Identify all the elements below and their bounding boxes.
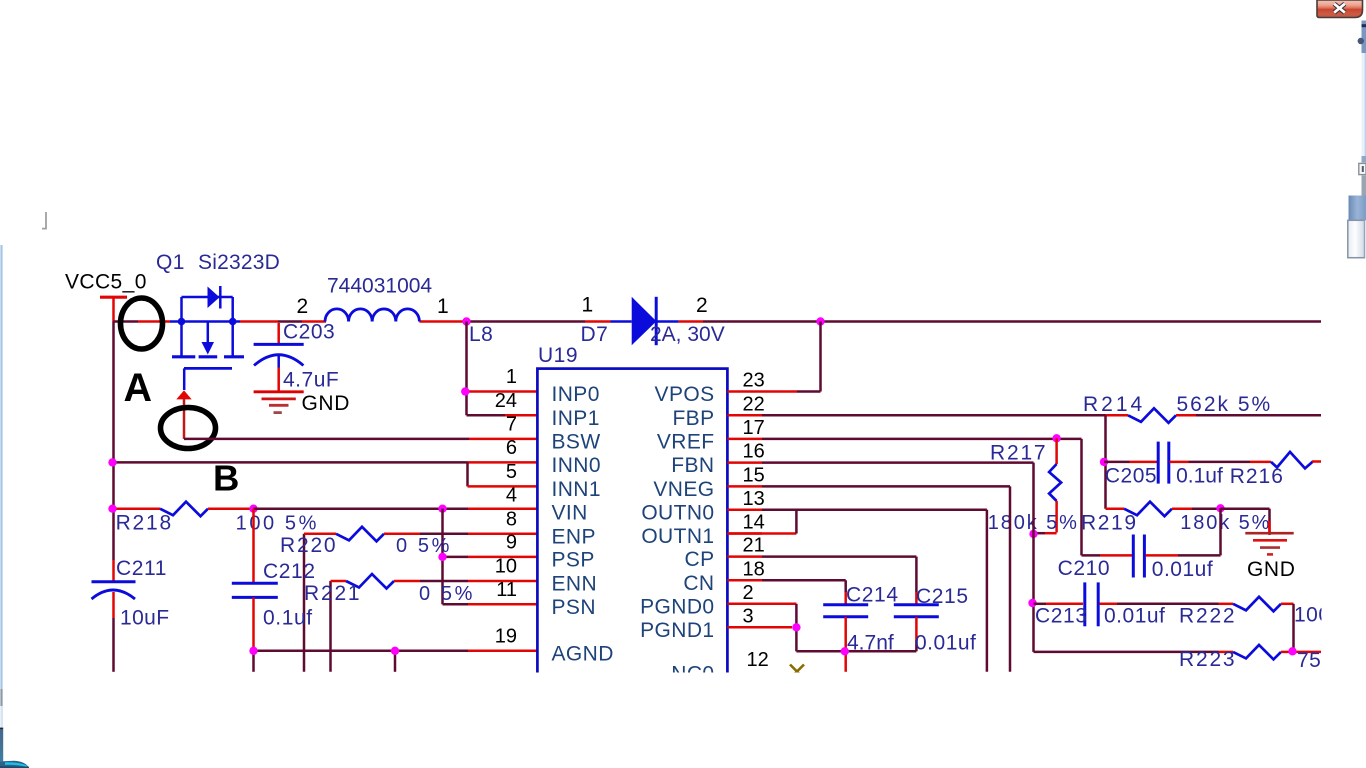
svg-text:VPOS: VPOS xyxy=(655,383,715,406)
capacitor C205 xyxy=(1104,461,1130,464)
svg-text:VCC5_0: VCC5_0 xyxy=(65,271,147,294)
svg-text:13: 13 xyxy=(743,488,765,510)
junction R222-R223 xyxy=(1288,647,1296,655)
svg-text:BSW: BSW xyxy=(552,431,601,454)
ground GND right xyxy=(1268,521,1271,535)
svg-text:GND: GND xyxy=(302,392,350,415)
capacitor C203 xyxy=(277,323,280,343)
annotation ellipse B xyxy=(161,408,216,449)
right edge window strip xyxy=(1362,21,1366,54)
svg-text:19: 19 xyxy=(495,626,517,648)
svg-text:0 5%: 0 5% xyxy=(396,535,452,557)
resistor R222 xyxy=(1219,603,1234,606)
svg-text:12: 12 xyxy=(747,649,769,671)
svg-text:0.01uf: 0.01uf xyxy=(915,632,976,655)
svg-text:100 5%: 100 5% xyxy=(236,513,319,535)
svg-text:CN: CN xyxy=(683,572,714,595)
svg-text:1: 1 xyxy=(582,294,594,317)
svg-text:PGND0: PGND0 xyxy=(640,595,714,618)
resistor R217 xyxy=(1055,438,1058,464)
svg-text:0.01uf: 0.01uf xyxy=(1104,605,1165,628)
svg-text:C211: C211 xyxy=(116,557,167,580)
junction R217 bottom xyxy=(1029,530,1037,538)
svg-text:C203: C203 xyxy=(283,321,335,344)
svg-text:744031004: 744031004 xyxy=(327,275,432,298)
gate arrow of Q1 xyxy=(176,390,191,399)
capacitor C210 xyxy=(1082,554,1101,557)
diode D7 xyxy=(632,297,657,345)
wire VREF xyxy=(762,438,1082,441)
svg-text:562k 5%: 562k 5% xyxy=(1177,393,1273,416)
svg-text:FBP: FBP xyxy=(672,407,714,430)
svg-text:ENP: ENP xyxy=(552,525,596,548)
svg-text:6: 6 xyxy=(506,437,517,459)
annotation ellipse A xyxy=(121,298,163,349)
wire AGND xyxy=(254,650,396,653)
svg-text:R217: R217 xyxy=(990,442,1047,465)
svg-text:15: 15 xyxy=(743,464,765,486)
page corner mark xyxy=(42,212,46,229)
capacitor C211 xyxy=(112,560,115,582)
svg-text:11: 11 xyxy=(496,579,517,601)
junction R218 left xyxy=(108,505,116,513)
svg-text:AGND: AGND xyxy=(552,643,614,666)
svg-text:9: 9 xyxy=(506,532,517,554)
resistor R218 xyxy=(160,502,208,517)
capacitor C213 xyxy=(1034,603,1047,606)
svg-text:R221: R221 xyxy=(304,582,361,605)
resistor R220 xyxy=(336,527,384,542)
wire FBP xyxy=(762,414,1106,417)
wire CP to C215 xyxy=(762,555,916,558)
wire Q1 to L8 xyxy=(240,320,278,323)
svg-text:0 5%: 0 5% xyxy=(419,583,475,605)
svg-text:R222: R222 xyxy=(1179,605,1236,628)
svg-text:PGND1: PGND1 xyxy=(640,619,714,642)
wire left vertical bus xyxy=(112,322,115,561)
svg-text:PSP: PSP xyxy=(552,549,595,572)
junction C205 tap xyxy=(1100,458,1108,466)
svg-text:4.7uF: 4.7uF xyxy=(283,369,339,392)
svg-text:10: 10 xyxy=(495,556,517,578)
svg-text:INP1: INP1 xyxy=(552,407,600,430)
wire VIN-PSP-PSN tie xyxy=(441,509,444,557)
svg-text:8: 8 xyxy=(506,508,517,530)
svg-text:0.1uf: 0.1uf xyxy=(263,607,313,630)
svg-text:INN0: INN0 xyxy=(552,454,601,477)
svg-text:180k 5%: 180k 5% xyxy=(1180,512,1271,534)
wire gate to BSW xyxy=(184,438,469,441)
svg-text:FBN: FBN xyxy=(671,454,714,477)
pin stubs right of U19 xyxy=(727,390,762,393)
junction R219-C210 xyxy=(1216,504,1224,512)
svg-text:U19: U19 xyxy=(538,344,578,367)
junction node B xyxy=(108,458,116,466)
svg-text:CP: CP xyxy=(685,548,715,571)
svg-text:OUTN0: OUTN0 xyxy=(641,501,714,524)
svg-text:10uF: 10uF xyxy=(120,607,169,630)
wire R219 to GND xyxy=(1221,507,1270,510)
wire FBN to R223 xyxy=(1034,651,1219,654)
svg-text:C215: C215 xyxy=(916,585,969,608)
svg-text:OUTN1: OUTN1 xyxy=(641,525,714,548)
svg-text:INN1: INN1 xyxy=(552,478,601,501)
svg-text:C205: C205 xyxy=(1105,465,1157,488)
svg-text:2: 2 xyxy=(743,582,754,604)
svg-text:2: 2 xyxy=(696,294,708,317)
op-amp U19 body xyxy=(537,369,727,681)
svg-text:INP0: INP0 xyxy=(552,383,600,406)
bottom-left corner icon fragment xyxy=(0,728,3,730)
wire VCC to Q1 xyxy=(114,320,139,323)
junction R217 top xyxy=(1052,434,1060,442)
svg-text:R218: R218 xyxy=(116,512,173,535)
transistor Q1 Si2323D xyxy=(180,297,183,322)
wire OUTN0 xyxy=(762,509,987,512)
svg-text:22: 22 xyxy=(743,393,765,415)
junction PSP tap xyxy=(438,553,446,561)
svg-text:R223: R223 xyxy=(1179,648,1236,671)
inductor L8 744031004 xyxy=(325,309,349,322)
wire VNEG xyxy=(762,485,1010,488)
svg-text:14: 14 xyxy=(743,512,765,534)
no-connect X on pin 12 xyxy=(790,665,804,679)
svg-text:D7: D7 xyxy=(581,323,609,346)
capacitor C214 xyxy=(823,603,868,606)
junction node VPOS tap xyxy=(816,317,824,325)
svg-text:PSN: PSN xyxy=(552,596,596,619)
resistor R216 xyxy=(1271,452,1313,469)
scrollbar block xyxy=(1349,196,1366,222)
svg-text:2A, 30V: 2A, 30V xyxy=(650,323,725,346)
svg-text:16: 16 xyxy=(743,441,765,463)
svg-text:2: 2 xyxy=(297,295,309,318)
svg-text:18: 18 xyxy=(743,558,765,580)
resistor R221 xyxy=(346,574,394,589)
junction PGND1 xyxy=(792,623,800,631)
svg-text:A: A xyxy=(124,366,153,410)
power symbol VCC5_0 xyxy=(100,296,127,299)
resistor R214 xyxy=(1128,408,1176,423)
capacitor C212 xyxy=(252,509,255,583)
junction AGND drop xyxy=(391,647,399,655)
resistor R219 xyxy=(1106,507,1125,510)
svg-text:R219: R219 xyxy=(1081,512,1138,535)
ground GND left xyxy=(254,390,304,393)
svg-text:C214: C214 xyxy=(846,584,899,607)
svg-text:Si2323D: Si2323D xyxy=(198,251,280,274)
svg-text:VIN: VIN xyxy=(552,501,588,524)
small scroll button fragment xyxy=(1359,163,1366,174)
close button X xyxy=(1317,0,1363,18)
junction C213 tap xyxy=(1028,599,1036,607)
svg-text:0.01uf: 0.01uf xyxy=(1152,558,1213,581)
svg-text:7: 7 xyxy=(506,414,517,436)
wire CN to C214 xyxy=(762,579,846,582)
wire VPOS to rail xyxy=(762,390,797,393)
svg-text:4: 4 xyxy=(506,484,517,506)
svg-text:C210: C210 xyxy=(1058,557,1111,580)
capacitor C215 xyxy=(894,603,939,606)
wire L8 to D7 xyxy=(419,320,466,323)
wire R221 drop xyxy=(329,581,332,672)
svg-text:VNEG: VNEG xyxy=(653,478,714,501)
wire PGND0 xyxy=(727,603,796,606)
wire L8 node to INP0/INP1 xyxy=(465,322,468,416)
svg-text:3: 3 xyxy=(743,605,754,627)
svg-text:C212: C212 xyxy=(263,560,316,583)
wire FBP drop to R219/C205 xyxy=(1104,415,1107,508)
wire FBN xyxy=(762,461,1034,464)
junction INP0 xyxy=(461,387,469,395)
svg-text:GND: GND xyxy=(1247,558,1295,581)
wire D7 to output rail xyxy=(656,320,678,323)
svg-text:1: 1 xyxy=(437,295,449,318)
svg-text:VREF: VREF xyxy=(657,430,715,453)
wire R220 drop xyxy=(303,534,306,672)
wire R222 to R223 xyxy=(1292,604,1295,652)
junction node L8-IC xyxy=(462,317,470,325)
junction VIN tap xyxy=(438,505,446,513)
resistor R223 xyxy=(1219,651,1234,654)
junction C212-AGND xyxy=(249,647,257,655)
wire OUTN1 tie xyxy=(727,532,796,535)
svg-text:5: 5 xyxy=(506,461,517,483)
wire PGND1 xyxy=(727,626,792,629)
svg-text:R220: R220 xyxy=(280,534,337,557)
svg-text:0.1uf: 0.1uf xyxy=(1176,465,1223,488)
svg-text:24: 24 xyxy=(495,390,517,412)
wire R218 to VIN xyxy=(254,507,443,510)
svg-text:21: 21 xyxy=(743,535,765,557)
svg-text:C213: C213 xyxy=(1035,605,1088,628)
svg-text:17: 17 xyxy=(743,417,765,439)
svg-text:L8: L8 xyxy=(469,323,493,346)
svg-text:ENN: ENN xyxy=(552,573,598,596)
left edge strip of window behind xyxy=(0,245,2,689)
svg-text:R216: R216 xyxy=(1230,465,1284,488)
junction C214 gnd xyxy=(841,647,849,655)
scrollbar thumb xyxy=(1348,220,1365,257)
wire VCC bus to R218 xyxy=(113,507,161,510)
svg-text:1: 1 xyxy=(506,366,517,388)
svg-text:23: 23 xyxy=(743,370,765,392)
svg-text:R214: R214 xyxy=(1083,393,1145,416)
wire node B to INN0/INN1 xyxy=(113,461,468,464)
junction R218 right xyxy=(249,505,257,513)
svg-text:Q1: Q1 xyxy=(156,251,185,274)
